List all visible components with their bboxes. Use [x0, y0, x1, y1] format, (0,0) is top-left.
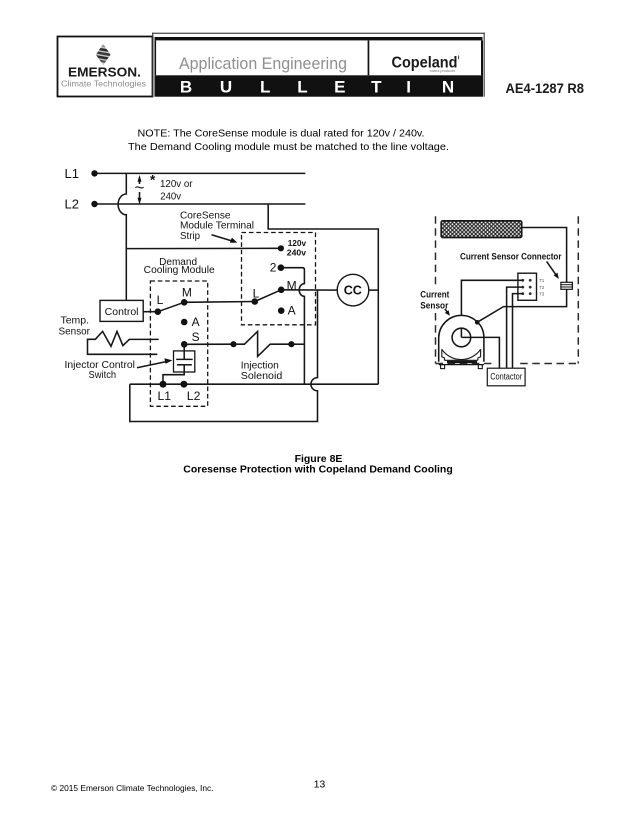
contactor coil CC circle — [337, 274, 369, 306]
svg-text:*: * — [150, 173, 156, 188]
svg-text:CC: CC — [344, 284, 362, 298]
wire pin T1 to top of current sensor — [461, 280, 522, 315]
module L2 label — [187, 389, 201, 403]
svg-text:T1: T1 — [539, 278, 545, 283]
svg-text:Sensor: Sensor — [59, 327, 91, 338]
wire connector to current sensor junction — [477, 289, 566, 322]
junction dot on current sensor — [475, 320, 480, 325]
svg-text:Solenoid: Solenoid — [241, 370, 283, 382]
voltage source double arrow with ~ — [134, 175, 146, 205]
Copeland logo — [392, 55, 460, 74]
svg-text:© 2015 Emerson Climate Technol: © 2015 Emerson Climate Technologies, Inc… — [51, 784, 214, 793]
current sensor feet — [441, 365, 483, 369]
arrow from Strip label to terminal strip box — [212, 235, 238, 243]
terminal strip A dot — [278, 307, 285, 314]
terminal 2 label — [270, 260, 277, 274]
BULLETIN letters — [180, 78, 454, 97]
EMERSON wordmark — [61, 66, 146, 89]
banner left border — [155, 40, 157, 75]
svg-text:T2: T2 — [539, 285, 545, 290]
current sensor toroid body — [439, 315, 484, 361]
arrow from label to injector control switch — [137, 358, 172, 368]
svg-text:B: B — [180, 78, 192, 97]
injector control switch box — [174, 351, 195, 372]
svg-text:120v: 120v — [288, 238, 307, 248]
bulletin number AE4-1287 R8 — [506, 81, 585, 97]
node L1 label — [65, 166, 79, 181]
wire CC right lead — [369, 289, 379, 291]
hatched bus bar — [441, 221, 522, 238]
svg-text:Cooling Module: Cooling Module — [144, 265, 215, 276]
terminal strip M label — [287, 278, 297, 292]
wire from L2 down right side to rail — [268, 204, 378, 384]
svg-text:L: L — [253, 286, 260, 300]
outer dashed enclosure — [436, 216, 579, 365]
wire from L1 down to Control with hop over L2 — [118, 173, 126, 300]
svg-text:13: 13 — [314, 779, 326, 790]
pin block — [518, 273, 537, 300]
svg-text:240v: 240v — [287, 248, 306, 258]
module L dot — [155, 308, 162, 315]
svg-text:A: A — [288, 303, 296, 317]
label 120v 240v — [287, 238, 307, 258]
svg-text:AE4-1287 R8: AE4-1287 R8 — [506, 81, 585, 97]
wire S to injection solenoid — [184, 343, 233, 345]
banner right border — [481, 40, 483, 75]
wire L1 horizontal — [95, 172, 306, 174]
Control box — [100, 300, 143, 321]
label Demand Cooling Module — [144, 257, 215, 276]
wire bus bar to connector — [522, 228, 567, 283]
Emerson logo box — [58, 37, 153, 97]
node L1 terminal dot — [91, 170, 97, 176]
terminal 120v/240v dot — [278, 245, 284, 251]
svg-text:120v or: 120v or — [160, 179, 193, 190]
svg-text:T: T — [371, 78, 382, 97]
terminal strip M dot — [278, 287, 285, 294]
svg-text:brand products: brand products — [430, 69, 455, 73]
module L2 dot — [180, 381, 187, 388]
switch L to M in terminal strip — [255, 290, 281, 302]
banner top rule — [155, 37, 483, 40]
svg-text:A: A — [192, 315, 200, 329]
wire branch from M wire down around bottom loop to L1/L2 rail — [130, 290, 318, 422]
terminal strip L label — [253, 286, 260, 300]
svg-text:L2: L2 — [65, 197, 79, 212]
svg-text:Coresense Protection with Cope: Coresense Protection with Copeland Deman… — [183, 464, 453, 476]
current sensor base plate — [439, 362, 484, 365]
svg-text:Current: Current — [420, 290, 450, 301]
svg-text:L: L — [157, 293, 164, 307]
current sensor cradle bracket — [442, 349, 481, 360]
wire module M to strip L — [184, 301, 255, 304]
label Current Sensor Connector — [460, 251, 562, 262]
terminal 2 dot — [278, 264, 285, 271]
svg-text:Control: Control — [105, 306, 139, 318]
wire Control to module L — [143, 311, 158, 313]
module L label — [157, 293, 164, 307]
module S dot — [181, 341, 188, 348]
svg-text:Current Sensor Connector: Current Sensor Connector — [460, 251, 562, 262]
label 120v or 240v — [150, 173, 193, 203]
wire M to CC coil — [281, 289, 337, 291]
svg-text:M: M — [182, 285, 192, 299]
injection solenoid break symbol — [234, 331, 292, 356]
module L1 dot — [160, 381, 167, 388]
svg-text:L1: L1 — [158, 389, 172, 403]
injector control switch capacitor symbol — [163, 344, 193, 384]
svg-text:Climate Technologies: Climate Technologies — [61, 78, 146, 88]
Control label — [105, 306, 139, 318]
svg-text:T3: T3 — [539, 291, 545, 296]
svg-text:Strip: Strip — [180, 231, 200, 242]
label Current Sensor (with white backing over dashed line) — [417, 288, 452, 312]
module A label — [192, 315, 200, 329]
L1/L2 rail of demand cooling module — [130, 383, 378, 385]
wire through toroid to contactor — [461, 328, 499, 368]
injection solenoid right dot — [288, 341, 294, 347]
module A dot — [181, 319, 188, 326]
arrow from Current Sensor label to toroid — [445, 309, 450, 316]
wire from terminal 2 down with hop over M wire — [281, 268, 305, 385]
svg-text:The Demand Cooling module must: The Demand Cooling module must be matche… — [128, 142, 449, 153]
Copeland divider — [368, 40, 370, 75]
BULLETIN black bar — [155, 75, 484, 96]
svg-text:N: N — [442, 78, 454, 97]
wire pin T3 down to contactor — [513, 294, 523, 369]
svg-text:L: L — [297, 78, 307, 97]
Contactor label — [490, 372, 522, 382]
switch L to M in module — [158, 302, 184, 311]
svg-text:L2: L2 — [187, 389, 201, 403]
svg-text:Temp.: Temp. — [61, 315, 90, 326]
wire solenoid to 2-wire junction — [291, 343, 304, 345]
wire pin T2 down to contactor — [507, 287, 523, 368]
Emerson diamond logo mark — [93, 44, 113, 65]
pin dots — [521, 279, 531, 295]
svg-text:240v: 240v — [160, 192, 181, 203]
temp sensor resistor and loop wires — [88, 331, 159, 354]
CoreSense terminal strip dashed box — [242, 233, 316, 325]
label Injector Control Switch — [65, 360, 136, 381]
wire branch to 120v/240v terminal — [126, 247, 281, 249]
arrow from label to connector — [547, 261, 559, 279]
banner thin outer border — [152, 33, 485, 97]
node L2 terminal dot — [91, 201, 97, 207]
svg-text:I: I — [406, 78, 411, 97]
node L2 label — [65, 197, 79, 212]
svg-text:S: S — [192, 330, 200, 344]
module M label — [182, 285, 192, 299]
Application Engineering title — [179, 54, 347, 73]
demand cooling module dashed box — [150, 281, 207, 406]
terminal strip L dot — [252, 298, 259, 305]
module M dot — [181, 299, 188, 306]
svg-text:Switch: Switch — [89, 370, 117, 381]
pin labels T1 T2 T3 — [539, 278, 545, 296]
label Temp. Sensor — [59, 315, 91, 337]
current sensor inner hole — [452, 328, 471, 347]
svg-text:NOTE: The CoreSense module is: NOTE: The CoreSense module is dual rated… — [138, 128, 425, 139]
svg-text:Contactor: Contactor — [490, 372, 522, 382]
svg-text:L: L — [260, 78, 270, 97]
injection solenoid left dot — [230, 341, 236, 347]
module S label — [192, 330, 200, 344]
terminal strip A label — [288, 303, 296, 317]
svg-text:E: E — [334, 78, 345, 97]
current sensor connector component — [561, 282, 573, 289]
svg-text:~: ~ — [135, 178, 145, 197]
wire L2 horizontal — [95, 203, 306, 205]
module L1 label — [158, 389, 172, 403]
label Injection Solenoid — [241, 359, 283, 382]
label CoreSense Module Terminal Strip — [180, 210, 254, 241]
CC label — [344, 284, 362, 298]
svg-text:2: 2 — [270, 260, 277, 274]
svg-text:Sensor: Sensor — [420, 300, 448, 311]
svg-text:U: U — [220, 78, 232, 97]
Contactor box — [487, 368, 525, 386]
svg-text:Application Engineering: Application Engineering — [179, 54, 347, 73]
svg-text:L1: L1 — [65, 166, 79, 181]
